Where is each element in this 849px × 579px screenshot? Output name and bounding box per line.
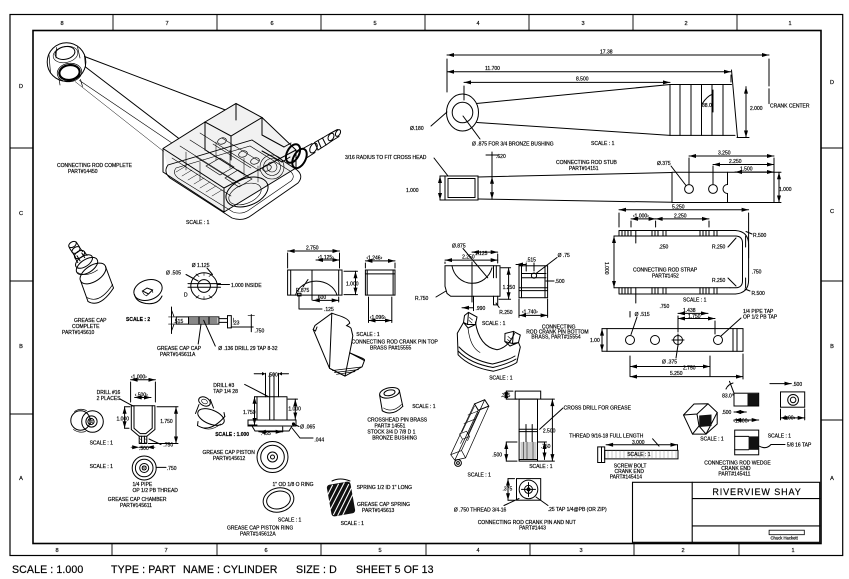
bb side outline xyxy=(519,266,548,298)
dim 2.250 strap top xyxy=(656,218,709,220)
side view outline xyxy=(365,270,395,295)
rod3d hub outer xyxy=(47,43,86,82)
svg-text:2 PLACES: 2 PLACES xyxy=(97,396,122,402)
chamber neck hatch xyxy=(139,438,147,443)
dim 1.000 piston xyxy=(294,399,296,419)
svg-text:SCALE : 1: SCALE : 1 xyxy=(529,464,553,470)
dim .750 right xyxy=(745,236,747,288)
svg-text:1: 1 xyxy=(788,21,791,27)
dim .500 plate top xyxy=(770,383,791,385)
svg-text:2.250: 2.250 xyxy=(729,159,742,165)
leader R.250 bottom xyxy=(728,278,736,286)
svg-text:SCALE : 1.000: SCALE : 1.000 xyxy=(12,564,83,576)
rod3d bracket to stub xyxy=(262,135,291,162)
top brass outline xyxy=(288,270,342,295)
rod3d inner quads xyxy=(206,158,252,187)
dim 1.000 strap left xyxy=(613,236,615,288)
svg-text:PART#145611: PART#145611 xyxy=(120,503,152,509)
bb3d inner arch xyxy=(475,322,514,350)
svg-text:3: 3 xyxy=(579,548,582,554)
svg-text:7: 7 xyxy=(165,21,168,27)
pin cylinder xyxy=(379,386,401,400)
zone ticks left xyxy=(10,148,33,414)
svg-text:NAME : CYLINDER: NAME : CYLINDER xyxy=(183,564,278,576)
leader cross drill xyxy=(540,408,563,429)
bar hole 4 xyxy=(714,336,723,345)
svg-text:2.000: 2.000 xyxy=(750,106,763,112)
pin lower shading xyxy=(521,442,537,460)
dim 1.750 piston xyxy=(254,397,256,425)
svg-text:THREAD 9/16-18 FULL LENGTH: THREAD 9/16-18 FULL LENGTH xyxy=(569,434,643,440)
pin body xyxy=(519,399,537,461)
svg-text:R.750: R.750 xyxy=(415,296,429,302)
pin inner slot xyxy=(519,425,537,460)
dim 1.000 strap top xyxy=(631,218,656,220)
strap right U inner xyxy=(730,236,743,288)
svg-text:PART#145613: PART#145613 xyxy=(362,508,395,514)
svg-text:4: 4 xyxy=(476,21,479,27)
bottom brass tab xyxy=(494,296,498,305)
svg-text:.750: .750 xyxy=(163,443,173,449)
flange dot xyxy=(292,422,295,425)
dim 17.38 xyxy=(447,54,769,56)
cap stem hex xyxy=(73,249,86,261)
svg-text:D: D xyxy=(184,293,188,299)
svg-text:SCALE : 1: SCALE : 1 xyxy=(482,321,506,327)
svg-text:SCALE : 1: SCALE : 1 xyxy=(90,464,114,470)
dim 1.750 chamber right xyxy=(175,407,177,444)
dim 3.000 xyxy=(606,444,677,446)
svg-text:2.750: 2.750 xyxy=(306,246,319,252)
rod3d taper lines xyxy=(85,57,233,113)
leader .044 xyxy=(292,428,313,438)
svg-text:.750: .750 xyxy=(752,270,762,276)
strap hatch top bar xyxy=(622,231,717,237)
dim 1.00 left xyxy=(601,329,603,352)
svg-text:11.700: 11.700 xyxy=(485,66,500,72)
donut outer xyxy=(131,276,165,304)
svg-text:5.250: 5.250 xyxy=(670,371,683,377)
piston section body xyxy=(257,397,287,420)
svg-text:CROSS DRILL FOR GREASE: CROSS DRILL FOR GREASE xyxy=(564,406,632,412)
svg-text:Ø .505: Ø .505 xyxy=(166,271,181,277)
svg-text:17.38: 17.38 xyxy=(600,50,613,56)
svg-text:PART#145414: PART#145414 xyxy=(610,474,643,480)
dim .500 chamber xyxy=(135,397,151,399)
block silhouette xyxy=(475,400,489,411)
svg-text:R.500: R.500 xyxy=(753,233,767,239)
svg-text:.515: .515 xyxy=(174,319,184,325)
dim .515 xyxy=(171,307,173,334)
leader dia .875 xyxy=(463,249,488,278)
svg-text:8: 8 xyxy=(60,21,63,27)
svg-text:SCALE : 1: SCALE : 1 xyxy=(278,518,302,524)
leader drill #3 xyxy=(245,384,268,396)
svg-text:Ø .75: Ø .75 xyxy=(558,253,570,259)
bottom brass right slot xyxy=(494,266,497,278)
bb3d right ear xyxy=(505,331,521,346)
svg-text:SCALE : 2: SCALE : 2 xyxy=(126,317,150,323)
bottom sheet text xyxy=(12,564,434,576)
rod3d box top plate xyxy=(205,104,262,161)
svg-text:2.250: 2.250 xyxy=(462,255,475,261)
rod3d small holes row xyxy=(238,150,249,159)
svg-text:8.500: 8.500 xyxy=(576,77,589,83)
side view inner xyxy=(365,270,395,295)
svg-text:.25 TAP 1/4@PB (OR ZIP): .25 TAP 1/4@PB (OR ZIP) xyxy=(548,507,607,513)
svg-text:Ø 1.125: Ø 1.125 xyxy=(192,263,210,269)
svg-text:.750: .750 xyxy=(255,329,265,335)
bottom brass outline xyxy=(445,266,500,297)
cap circle outer xyxy=(191,273,217,299)
rod3d base inner rim xyxy=(174,146,293,213)
dim 2.250 bb xyxy=(445,259,498,261)
svg-text:6: 6 xyxy=(270,21,273,27)
svg-text:‹1.000›: ‹1.000› xyxy=(131,375,147,381)
svg-text:CRANK CENTER: CRANK CENTER xyxy=(770,104,810,110)
svg-text:SCALE : 1: SCALE : 1 xyxy=(90,441,114,447)
leader 5/8 tap xyxy=(759,445,785,448)
stub bar xyxy=(478,173,672,203)
bb side inner lines xyxy=(519,266,548,298)
svg-text:2.750: 2.750 xyxy=(683,366,696,372)
cap section body xyxy=(176,317,219,324)
leader grease cap cap name xyxy=(198,324,201,344)
svg-text:‹1.00›: ‹1.00› xyxy=(782,415,795,421)
cap body bottom xyxy=(88,288,114,303)
dim .500 wedge xyxy=(734,411,746,413)
svg-text:SCALE : 1: SCALE : 1 xyxy=(683,298,707,304)
svg-text:TAP 1/4 28: TAP 1/4 28 xyxy=(213,389,238,395)
bar end lines xyxy=(733,329,737,352)
dim 5.250 bar xyxy=(630,376,743,378)
stub holes xyxy=(685,185,694,194)
svg-text:Ø .750 THREAD 3/4-16: Ø .750 THREAD 3/4-16 xyxy=(454,508,507,514)
svg-text:.620: .620 xyxy=(496,154,506,160)
bottom brass trough arc xyxy=(452,266,492,284)
top brass arch xyxy=(296,281,338,295)
dim 1.00 plate xyxy=(781,417,805,419)
dim 1.000 wedge xyxy=(734,419,759,421)
svg-text:SCALE : 1: SCALE : 1 xyxy=(768,434,792,440)
wedge angle leader xyxy=(726,381,734,393)
rod block vertical lines xyxy=(680,85,723,136)
dim 1.000 chamber left xyxy=(124,407,126,428)
chamber neck xyxy=(139,436,147,443)
svg-text:8: 8 xyxy=(55,548,58,554)
dim 1.000 chamber top xyxy=(131,379,156,381)
leader 3/16 radius xyxy=(434,158,448,176)
svg-text:BRASS PA#15555: BRASS PA#15555 xyxy=(370,346,412,352)
leader 1/4 pipe tap xyxy=(721,318,741,336)
leader drill 29 xyxy=(204,320,216,346)
svg-text:2.500: 2.500 xyxy=(543,429,556,435)
svg-text:TYPE : PART: TYPE : PART xyxy=(111,564,176,576)
leader thread xyxy=(504,499,519,506)
svg-text:1.250: 1.250 xyxy=(503,285,516,291)
piston flange xyxy=(248,420,296,431)
svg-text:.515: .515 xyxy=(526,258,536,264)
cap section line xyxy=(188,284,221,288)
rod3d stub hex xyxy=(315,138,327,150)
svg-text:PART#1452: PART#1452 xyxy=(652,274,679,280)
svg-text:PART#14450: PART#14450 xyxy=(68,169,98,175)
svg-text:.990: .990 xyxy=(476,306,486,312)
piston 3D xyxy=(197,395,212,408)
bb side slot xyxy=(522,274,546,278)
leader tap xyxy=(536,497,548,506)
svg-text:Ø.875: Ø.875 xyxy=(452,244,466,250)
svg-text:.750: .750 xyxy=(541,444,551,450)
cap section right step xyxy=(219,316,231,328)
rod3d swirl boss xyxy=(260,155,284,179)
rod3d hub top opening xyxy=(54,45,76,61)
svg-text:Ø.180: Ø.180 xyxy=(410,126,424,132)
svg-text:7: 7 xyxy=(164,548,167,554)
dim 1.500 stub xyxy=(735,171,774,173)
rod3d lower hatch xyxy=(176,166,222,196)
bolt shank xyxy=(605,450,678,459)
bar hole 1 xyxy=(626,336,635,345)
dim .500 pin xyxy=(505,442,507,461)
svg-text:83.0°: 83.0° xyxy=(722,394,734,400)
leader thread bolt xyxy=(653,439,659,446)
svg-text:Ø .375: Ø .375 xyxy=(662,360,677,366)
svg-text:C: C xyxy=(19,211,23,217)
bb side hole xyxy=(531,273,536,278)
wedge lower rect xyxy=(735,430,759,455)
crank center line xyxy=(768,89,770,104)
dim .750 right xyxy=(231,315,253,332)
svg-text:C: C xyxy=(830,209,834,215)
stub square end xyxy=(445,176,478,200)
piston section stem xyxy=(266,373,279,397)
svg-text:.044: .044 xyxy=(314,438,324,444)
svg-text:3/16 RADIUS TO FIT CROSS HEAD: 3/16 RADIUS TO FIT CROSS HEAD xyxy=(345,155,427,161)
svg-text:PART#145612A: PART#145612A xyxy=(240,532,276,538)
rod3d base plate xyxy=(166,140,301,219)
svg-text:1.000: 1.000 xyxy=(117,417,130,423)
svg-text:‹1.740›: ‹1.740› xyxy=(522,310,538,316)
dim .23 xyxy=(233,318,235,323)
svg-text:SPRING 1/2 ID 1" LONG: SPRING 1/2 ID 1" LONG xyxy=(357,485,413,491)
pin head xyxy=(515,391,541,399)
svg-text:1.000 INSIDE: 1.000 INSIDE xyxy=(231,283,262,289)
svg-text:Chuck Hackett: Chuck Hackett xyxy=(771,536,799,541)
svg-text:.500: .500 xyxy=(722,410,732,416)
dim .990 bb xyxy=(462,296,474,310)
leader .750 top view xyxy=(156,466,166,468)
top brass inner walls xyxy=(291,270,339,295)
dim .515 bb xyxy=(516,263,534,271)
rod3d inner struts xyxy=(186,138,259,182)
svg-text:R.875: R.875 xyxy=(296,288,310,294)
svg-text:RIVERVIEW SHAY: RIVERVIEW SHAY xyxy=(712,487,801,497)
svg-text:1.750: 1.750 xyxy=(243,410,256,416)
svg-text:PART#145411: PART#145411 xyxy=(718,472,750,478)
svg-text:SCALE : 1: SCALE : 1 xyxy=(627,452,651,458)
svg-text:Ø .136 DRILL 29 TAP 8-32: Ø .136 DRILL 29 TAP 8-32 xyxy=(218,346,278,352)
svg-text:A: A xyxy=(830,476,834,482)
svg-text:SIZE : D: SIZE : D xyxy=(296,564,337,576)
dim .375 pin xyxy=(505,391,507,399)
svg-text:1.000: 1.000 xyxy=(779,187,792,193)
svg-text:OP 1/2 PB THREAD: OP 1/2 PB THREAD xyxy=(133,488,179,494)
leader R.500 bottom xyxy=(745,289,750,291)
bb3d bottom rim xyxy=(458,347,516,368)
leader .750 bottom xyxy=(635,294,637,303)
dim drill16 leader xyxy=(120,399,133,406)
svg-text:R.250: R.250 xyxy=(712,245,726,251)
svg-text:BRONZE BUSHING: BRONZE BUSHING xyxy=(372,436,417,442)
svg-text:Ø .875 FOR 3/4 BRONZE BUSHING: Ø .875 FOR 3/4 BRONZE BUSHING xyxy=(472,142,554,148)
leader R.250 bb xyxy=(496,303,499,308)
rod big end outer circle xyxy=(447,94,479,131)
block end circles xyxy=(455,460,462,467)
stub paddle xyxy=(672,172,774,202)
svg-text:.500: .500 xyxy=(792,382,802,388)
dim 11.700 xyxy=(447,71,731,73)
svg-text:.500: .500 xyxy=(139,446,149,452)
svg-text:2: 2 xyxy=(684,21,687,27)
top brass arch center mark xyxy=(311,270,313,300)
leader dia .75 xyxy=(536,258,557,274)
dim 1.000 right xyxy=(355,271,357,294)
dim 2.750 xyxy=(630,366,710,368)
zone ticks top xyxy=(113,15,737,31)
strap hatch bottom bar xyxy=(622,288,717,294)
svg-text:3.000: 3.000 xyxy=(632,440,645,446)
square circle xyxy=(519,480,538,499)
dim 1.246 xyxy=(365,260,395,262)
rod3d shading xyxy=(163,104,296,213)
rod3d box main slab xyxy=(163,118,296,213)
svg-text:.750: .750 xyxy=(660,304,670,310)
leader dia .375 bar xyxy=(676,345,678,358)
svg-text:R.500: R.500 xyxy=(752,291,766,297)
rod taper bottom edge xyxy=(477,123,670,136)
leader .180 xyxy=(431,112,447,126)
svg-text:1.125: 1.125 xyxy=(475,251,488,257)
svg-text:1.000: 1.000 xyxy=(288,407,301,413)
svg-text:.375: .375 xyxy=(503,487,513,493)
cap stem tip xyxy=(68,240,78,249)
cap circle inner xyxy=(198,280,211,293)
svg-text:PART#1443: PART#1443 xyxy=(519,526,546,532)
svg-text:2: 2 xyxy=(681,548,684,554)
svg-text:‹.500›: ‹.500› xyxy=(135,393,148,399)
svg-text:Ø .065: Ø .065 xyxy=(300,425,315,431)
svg-text:B: B xyxy=(19,344,23,350)
chamber top view rings xyxy=(132,456,156,480)
stub notch xyxy=(723,172,728,202)
wedge upper rect xyxy=(734,393,759,406)
svg-text:BRASS, PART#15554: BRASS, PART#15554 xyxy=(531,335,581,341)
dim 3.250 stub xyxy=(689,155,774,157)
leader bushing note xyxy=(463,116,480,139)
dim .600 xyxy=(313,299,339,301)
spring top tail xyxy=(332,479,350,481)
rod big end bore circle xyxy=(452,102,473,123)
svg-text:‹1.096›: ‹1.096› xyxy=(370,315,386,321)
svg-text:SCALE : 1: SCALE : 1 xyxy=(591,141,615,147)
svg-text:SCALE : 1: SCALE : 1 xyxy=(356,332,380,338)
dim .620 xyxy=(491,177,493,199)
strap top bar xyxy=(619,231,730,237)
dim .455 xyxy=(259,431,283,433)
rod3d hub facets xyxy=(49,47,86,87)
svg-text:.600: .600 xyxy=(316,295,326,301)
svg-text:D: D xyxy=(19,84,23,90)
leader dia 1.125 xyxy=(207,268,213,275)
svg-text:PART#145612: PART#145612 xyxy=(213,456,246,462)
dim 2.250 stub xyxy=(713,164,774,166)
bottom brass centerline xyxy=(471,262,473,302)
svg-text:SHEET 5 OF 13: SHEET 5 OF 13 xyxy=(356,564,434,576)
bb3d body xyxy=(457,323,520,372)
svg-text:.375: .375 xyxy=(501,393,511,399)
svg-text:.250: .250 xyxy=(659,245,669,251)
svg-text:4: 4 xyxy=(476,548,479,554)
svg-text:1.750: 1.750 xyxy=(160,419,173,425)
svg-text:B: B xyxy=(830,344,834,350)
svg-text:.750: .750 xyxy=(167,466,177,472)
svg-text:1" OD 1/8 O RING: 1" OD 1/8 O RING xyxy=(273,482,314,488)
plate rect xyxy=(781,392,805,407)
title block xyxy=(633,482,820,542)
svg-text:1: 1 xyxy=(791,548,794,554)
dim 1.438 xyxy=(678,312,708,314)
wedge lower inner line xyxy=(735,436,749,449)
svg-text:1.000: 1.000 xyxy=(603,262,609,275)
rod3d hub bore xyxy=(58,64,80,81)
svg-text:R.250: R.250 xyxy=(499,310,513,316)
svg-text:1.750: 1.750 xyxy=(688,314,701,320)
svg-text:5: 5 xyxy=(373,21,376,27)
leader dia .505 xyxy=(186,275,198,282)
leader dia .515 xyxy=(630,312,637,335)
wedge lower black xyxy=(749,436,759,449)
leader .065 xyxy=(295,425,300,427)
svg-text:Ø.375: Ø.375 xyxy=(657,161,671,167)
svg-text:.500: .500 xyxy=(555,279,565,285)
dim 1.125 bb xyxy=(472,251,498,253)
svg-text:.455: .455 xyxy=(261,431,271,437)
svg-text:3: 3 xyxy=(581,21,584,27)
bar hole 2 xyxy=(651,336,660,345)
strap right U outer xyxy=(730,231,749,295)
svg-text:1.00: 1.00 xyxy=(590,338,600,344)
spring body xyxy=(326,481,355,517)
wedge3d silhouette xyxy=(684,404,718,434)
svg-text:.500: .500 xyxy=(268,373,278,379)
svg-text:D: D xyxy=(830,80,834,86)
dim 1.740 xyxy=(519,314,548,316)
cap body sides xyxy=(81,267,114,302)
leader dia .375 stub xyxy=(671,166,686,186)
dim .125 step xyxy=(299,295,322,309)
donut hole xyxy=(143,288,153,294)
leader R.500 top xyxy=(746,232,752,235)
svg-text:‹1.000›: ‹1.000› xyxy=(633,214,649,220)
dim .750 pin xyxy=(544,442,546,460)
bolt head xyxy=(598,447,605,463)
svg-text:.23: .23 xyxy=(233,320,240,326)
svg-text:PART#14151: PART#14151 xyxy=(569,166,599,172)
leader R.250 top xyxy=(728,238,736,247)
cap collar washer xyxy=(73,252,95,271)
dim 1.750 xyxy=(678,318,715,320)
